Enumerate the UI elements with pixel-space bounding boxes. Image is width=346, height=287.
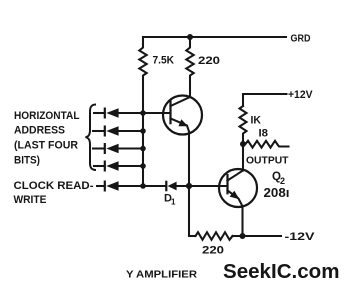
svg-text:SeekIC.com: SeekIC.com	[223, 261, 340, 283]
svg-text:220: 220	[198, 55, 220, 67]
svg-text:1: 1	[171, 198, 176, 207]
svg-text:2: 2	[280, 176, 285, 186]
svg-text:220: 220	[202, 245, 224, 257]
svg-text:BITS): BITS)	[14, 155, 40, 167]
svg-text:IK: IK	[251, 115, 262, 127]
transistor Q2	[219, 169, 257, 207]
svg-text:7.5K: 7.5K	[153, 55, 175, 67]
diode D1	[166, 182, 227, 191]
diode address bit 3	[93, 144, 143, 154]
wire +12V rail	[243, 94, 287, 106]
diode address bit 1	[94, 108, 143, 118]
brace (last four bits)	[86, 105, 97, 171]
resistor R5 220 bottom	[196, 232, 233, 240]
svg-text:(LAST FOUR: (LAST FOUR	[14, 140, 78, 152]
node bus row2	[140, 128, 146, 134]
wire bottom rail left	[189, 235, 196, 237]
wire Q2 collector lead	[242, 144, 244, 171]
node bus row4	[140, 163, 146, 169]
svg-text:Y AMPLIFIER: Y AMPLIFIER	[126, 269, 197, 281]
svg-text:+12V: +12V	[288, 89, 313, 101]
node emitter rail junction	[240, 233, 246, 239]
svg-text:-12V: -12V	[285, 231, 316, 243]
wire Q2 emitter down	[241, 206, 243, 236]
diode address bit 4	[94, 161, 143, 171]
resistor R3 1K	[240, 106, 247, 144]
wire Q1 emitter down	[188, 133, 190, 236]
svg-text:I8: I8	[259, 128, 269, 140]
resistor R1 7.5K	[139, 37, 146, 78]
svg-text:HORIZONTAL: HORIZONTAL	[14, 110, 80, 122]
diode address bit 2	[93, 126, 143, 136]
node bus row1	[140, 110, 146, 116]
svg-text:ADDRESS: ADDRESS	[14, 125, 65, 137]
node bus row5	[140, 183, 146, 189]
wire Q1 base lead	[143, 112, 171, 114]
node top rail junction	[187, 34, 193, 40]
node emitter/base junction	[186, 183, 192, 189]
transistor Q1	[163, 96, 202, 135]
svg-text:OUTPUT: OUTPUT	[246, 155, 289, 167]
svg-text:CLOCK READ-: CLOCK READ-	[14, 180, 94, 192]
resistor R2 220 top	[186, 37, 193, 78]
svg-text:GRD: GRD	[291, 33, 311, 45]
svg-text:208ı: 208ı	[264, 186, 290, 200]
node output junction	[240, 141, 246, 147]
wire bottom rail right	[233, 235, 282, 237]
wire Q1 collector lead	[189, 78, 191, 98]
node bus row3	[140, 146, 146, 152]
diode clock read-write	[97, 181, 165, 191]
svg-text:WRITE: WRITE	[14, 194, 47, 206]
wire left bus	[142, 78, 144, 187]
wire top ground rail	[143, 36, 286, 38]
resistor R4 18 output	[243, 141, 289, 148]
